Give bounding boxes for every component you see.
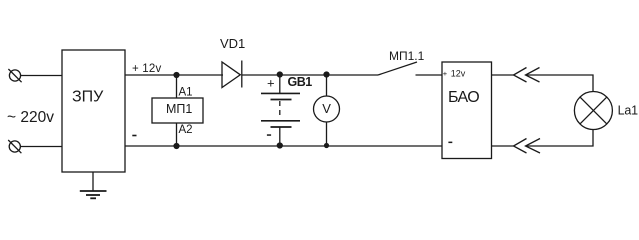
switch МП1.1 blade — [378, 62, 417, 75]
wire connector to lamp corner top — [526, 75, 593, 92]
wire connector to БАО bottom — [492, 145, 514, 147]
node dot V top — [323, 71, 329, 77]
svg-text:+: + — [443, 69, 448, 78]
terminal X1b (bottom input) — [8, 140, 21, 153]
svg-text:ЗПУ: ЗПУ — [72, 89, 104, 106]
БАО box — [442, 62, 492, 159]
node dot GB1 top — [277, 71, 283, 77]
svg-text:GB1: GB1 — [288, 75, 313, 89]
label - (GB1) — [267, 134, 271, 136]
voltmeter V circle — [314, 96, 340, 122]
node dot GB1 bottom — [277, 142, 283, 148]
connector chevrons bottom — [514, 139, 541, 154]
svg-text:A1: A1 — [179, 87, 193, 99]
wire МП1 top branch — [176, 75, 178, 98]
connector chevrons top — [514, 68, 540, 83]
wire bottom rail ЗПУ to БАО — [125, 145, 442, 147]
label - (БАО input) — [448, 142, 452, 144]
diode VD1 — [222, 61, 242, 88]
wire lamp to connector bottom — [526, 130, 593, 147]
node dot V bottom — [324, 143, 329, 148]
svg-text:A2: A2 — [179, 124, 193, 136]
lamp La1 — [574, 92, 612, 130]
wire МП1 bottom branch — [176, 123, 178, 146]
node dot МП1 bottom — [173, 143, 179, 149]
svg-text:La1: La1 — [618, 103, 639, 117]
terminal X1a (top input) — [8, 69, 21, 82]
svg-text:~ 220v: ~ 220v — [7, 109, 54, 126]
charger unit ЗПУ box — [62, 50, 125, 172]
wire top rail diode to switch — [242, 74, 378, 76]
svg-text:+: + — [267, 76, 275, 91]
wire terminal X1a to ЗПУ — [21, 75, 62, 77]
svg-text:МП1.1: МП1.1 — [389, 49, 425, 63]
node dot МП1 top — [173, 72, 179, 78]
svg-text:+ 12v: + 12v — [132, 63, 162, 75]
wire switch to БАО — [416, 74, 443, 76]
svg-text:МП1: МП1 — [166, 102, 192, 116]
wire top rail ЗПУ to diode — [125, 74, 223, 76]
relay coil МП1 box — [152, 98, 203, 123]
ground — [80, 172, 107, 198]
voltmeter V branch wires — [326, 75, 328, 96]
svg-text:12v: 12v — [451, 69, 466, 79]
svg-text:БАО: БАО — [448, 89, 479, 106]
svg-text:VD1: VD1 — [220, 36, 245, 51]
wire terminal X1b to ЗПУ — [20, 146, 62, 148]
wire БАО to connector top — [492, 74, 514, 76]
battery GB1 — [261, 75, 300, 146]
label - (ЗПУ output) — [132, 135, 136, 137]
svg-text:V: V — [322, 101, 331, 116]
